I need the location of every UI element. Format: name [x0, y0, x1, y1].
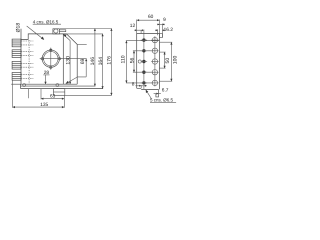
label 4 cns. O16.5 [33, 19, 59, 24]
flange small hole left [41, 58, 43, 60]
mounting dots column centerline [143, 30, 145, 85]
hidden interior wall [28, 40, 30, 84]
dim 135 line [13, 106, 65, 108]
dim 56 label [130, 57, 136, 63]
top edge notch [157, 34, 159, 36]
ext 100 bottom [160, 80, 173, 82]
svg-text:8: 8 [132, 82, 135, 88]
dim 28 label [44, 70, 50, 76]
dim 176 line [110, 29, 112, 96]
svg-text:6.7: 6.7 [162, 88, 169, 94]
svg-text:50: 50 [165, 58, 171, 64]
dim 164 line [102, 34, 104, 89]
boss 1 hidden hole [21, 41, 33, 45]
top right ear [159, 34, 162, 38]
base plate top line [11, 83, 77, 85]
label 5 cns O5.5 [150, 97, 174, 102]
dim 63 label [50, 93, 56, 99]
leader 5 cns [146, 90, 152, 99]
dim 110 label [120, 55, 126, 63]
dim 6.7 arrows [154, 93, 159, 95]
svg-text:135: 135 [40, 102, 48, 108]
flange circle inner [44, 52, 58, 66]
flange small hole right [58, 58, 60, 60]
dim 63 line [41, 98, 64, 100]
ext line bottom box [65, 94, 112, 96]
dim 60 [137, 19, 160, 21]
ext mid top [133, 50, 152, 52]
dim 28 underline [43, 74, 49, 76]
hole 1 [151, 37, 158, 42]
ext 100 top [160, 41, 173, 43]
dim 69 line with dogleg [85, 59, 87, 77]
dim 56 line [133, 51, 135, 72]
dim 16.2 [155, 29, 158, 31]
dot 5 [141, 81, 147, 84]
svg-text:4 cns. Ø16.5: 4 cns. Ø16.5 [33, 19, 59, 24]
ext line at chamfer corner [77, 43, 87, 45]
boss 4 hidden hole [21, 74, 33, 78]
dim 100 line [170, 42, 172, 81]
ext 50 top [160, 51, 166, 53]
dim 100 label [172, 56, 178, 65]
cable boss 4 [12, 73, 21, 81]
ext line top face [67, 33, 104, 35]
dim 135 label [40, 102, 48, 108]
bottom right step [156, 89, 159, 97]
svg-text:176: 176 [106, 56, 112, 65]
gland neck to right [59, 30, 65, 32]
left view body outline [21, 29, 77, 84]
svg-text:100: 100 [172, 56, 178, 65]
dim 6.7 label [162, 88, 169, 94]
svg-text:164: 164 [98, 57, 104, 66]
boss 3 hidden hole [21, 63, 33, 67]
ext mid bottom [133, 71, 152, 73]
dim 176 label [106, 56, 112, 65]
dim 9 [157, 23, 165, 25]
small vertical below base [28, 89, 30, 99]
ext lines above plate [136, 20, 138, 34]
svg-text:146: 146 [90, 57, 96, 66]
dim 50 line [164, 52, 166, 68]
flange top dark dot [50, 49, 51, 50]
lower box under base [54, 89, 65, 96]
dim 164 label [98, 57, 104, 66]
cable boss 2 [12, 50, 21, 58]
hole 5 [151, 80, 158, 85]
screw left on base [23, 84, 26, 87]
svg-text:69: 69 [80, 58, 86, 64]
dim 135 ext left [12, 80, 14, 108]
dot 3 [141, 60, 147, 63]
flange small hole top [50, 49, 52, 51]
svg-text:12: 12 [130, 23, 136, 29]
dot 2 [141, 49, 147, 52]
hole 3 [151, 59, 158, 64]
hole 4 [151, 70, 158, 75]
ext bottom holes [126, 82, 152, 84]
dim 110 line [125, 41, 127, 83]
dim 146 line [94, 29, 96, 87]
gland box on top [53, 29, 60, 34]
ext top holes [126, 40, 160, 42]
flange small hole bottom [50, 66, 52, 68]
dim 146 label [90, 57, 96, 66]
label O18 [16, 23, 22, 33]
gland circle [54, 29, 58, 33]
bottom notch vertical 1 [140, 85, 142, 88]
extra hole left of dot 3 [138, 60, 141, 63]
boss 2 hidden hole [21, 52, 33, 56]
dot 4 [141, 71, 147, 74]
svg-text:60: 60 [148, 14, 154, 20]
svg-text:63: 63 [50, 93, 56, 99]
dim 69 label [80, 58, 86, 64]
underline of 4 cns label [33, 23, 61, 25]
svg-text:130: 130 [65, 56, 71, 65]
cable boss 1 [12, 39, 21, 47]
leader from 4 cns label [27, 26, 44, 39]
underline 5 cns [150, 101, 176, 103]
base plate bottom line [21, 88, 104, 90]
flange circle outer [42, 50, 59, 67]
dim 8 line [135, 85, 147, 87]
plate outline [137, 34, 160, 90]
cable boss 3 [12, 61, 21, 69]
lower box inner line [54, 91, 65, 93]
ext line top gland [60, 28, 112, 30]
dim 130 line with dogleg [69, 41, 71, 85]
flange crosshair [40, 58, 62, 60]
svg-text:5 cns. Ø6.5: 5 cns. Ø6.5 [150, 97, 174, 102]
dim 28 leader [45, 75, 47, 84]
base plate mid line [21, 85, 96, 87]
bottom notch vertical 2 [143, 85, 145, 89]
svg-text:16.2: 16.2 [164, 27, 174, 33]
dim 63 ext left [40, 89, 42, 100]
hole 2 [151, 48, 158, 53]
dim 50 label [165, 58, 171, 64]
dim 8 label [132, 82, 135, 88]
svg-text:9: 9 [163, 17, 166, 23]
dim 12 [134, 29, 143, 31]
screw right on base [56, 84, 59, 87]
dim 63 / 135 ext right [63, 95, 65, 108]
svg-text:110: 110 [120, 55, 126, 63]
base plate left cap [20, 84, 22, 88]
ext 50 bottom [160, 67, 166, 69]
holes column centerline [154, 36, 156, 86]
svg-text:56: 56 [130, 57, 136, 63]
dot 1 [141, 38, 147, 41]
ext line circle center [60, 58, 87, 60]
dim 130 label [65, 56, 71, 65]
